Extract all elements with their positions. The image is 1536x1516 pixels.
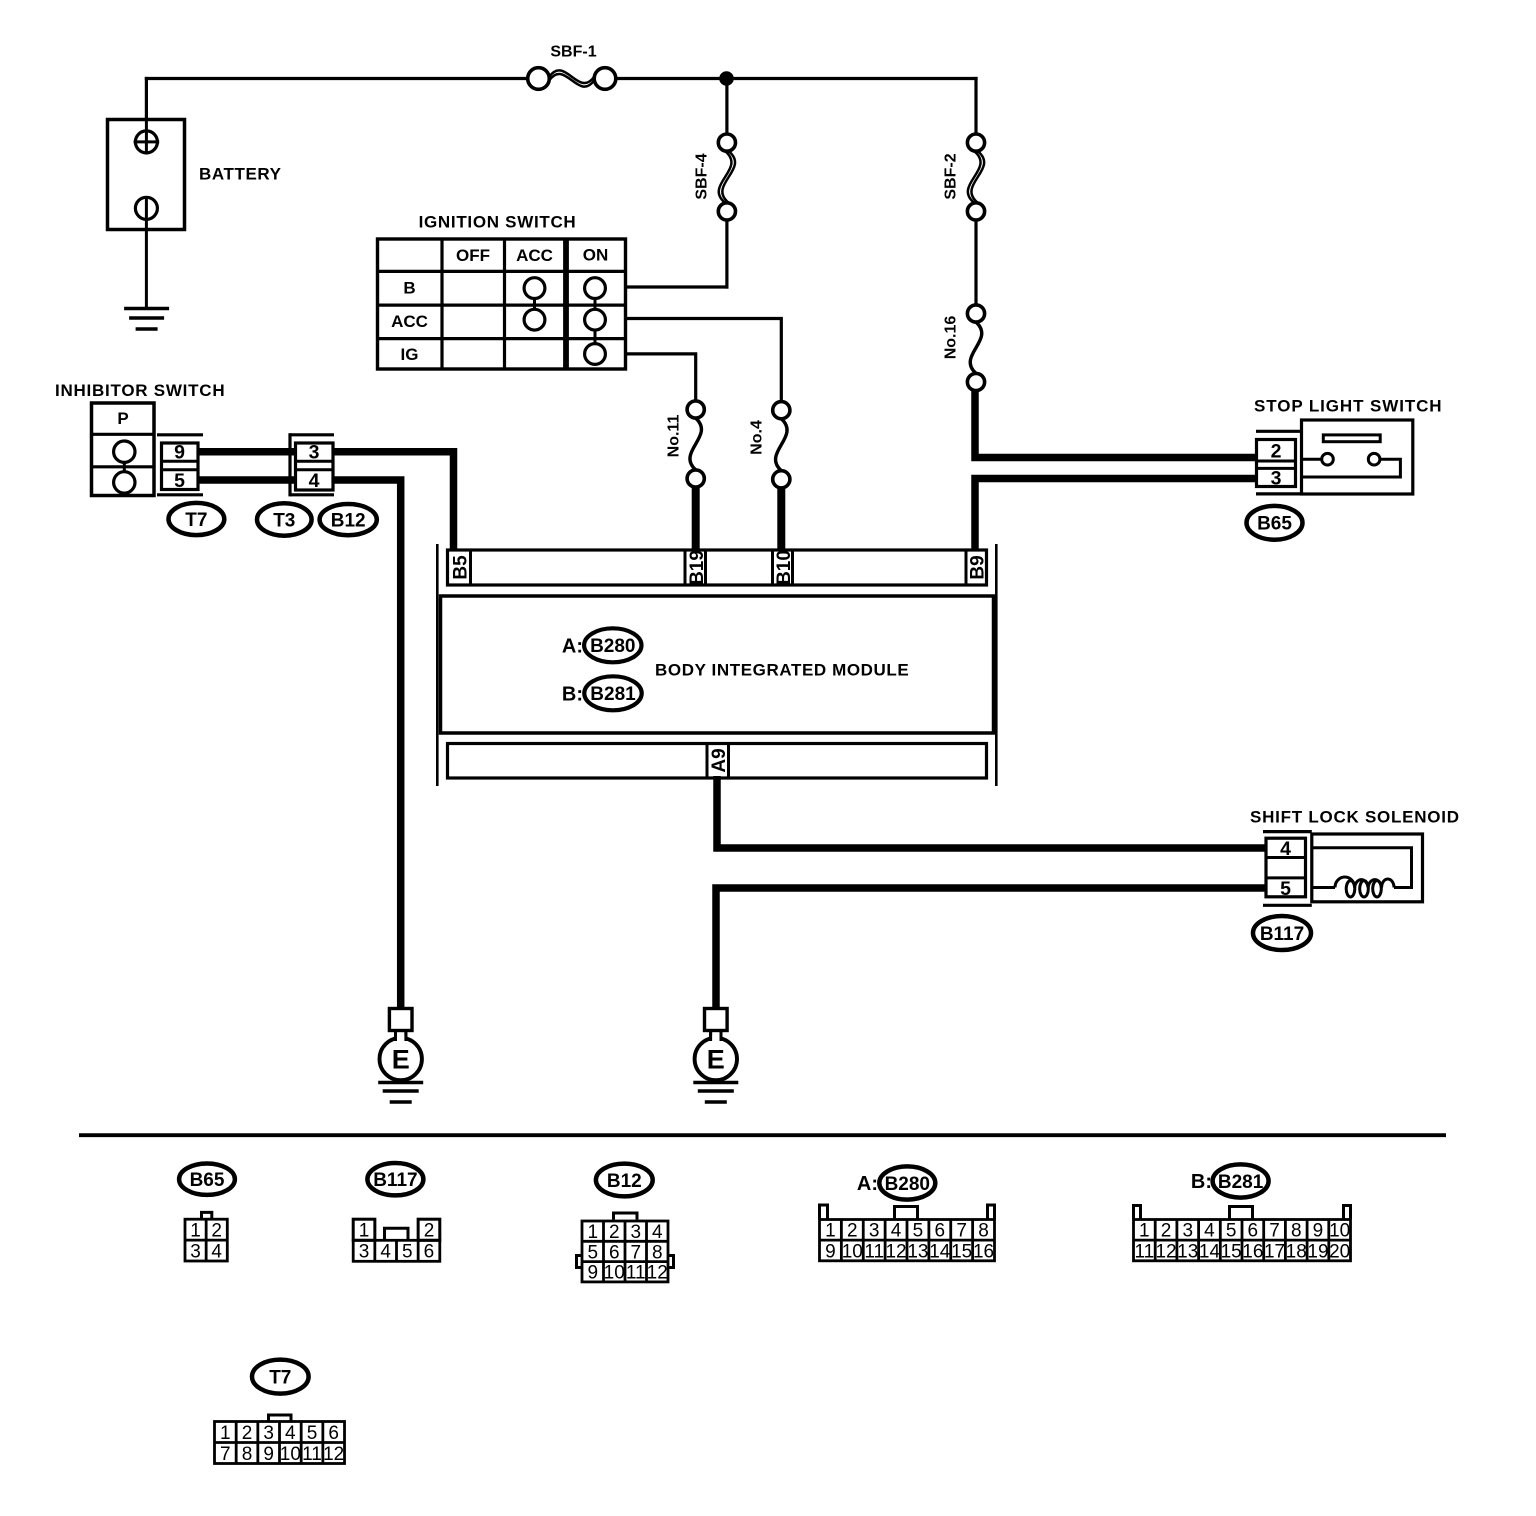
svg-text:B12: B12 <box>331 510 366 531</box>
svg-text:3: 3 <box>1182 1221 1193 1242</box>
svg-text:7: 7 <box>220 1444 231 1465</box>
svg-text:ACC: ACC <box>516 246 553 265</box>
svg-text:3: 3 <box>263 1423 274 1444</box>
svg-text:10: 10 <box>604 1263 625 1284</box>
svg-text:B19: B19 <box>687 550 708 585</box>
svg-text:OFF: OFF <box>456 246 490 265</box>
svg-text:2: 2 <box>847 1221 858 1242</box>
svg-text:8: 8 <box>1291 1221 1302 1242</box>
svg-text:15: 15 <box>1221 1241 1242 1262</box>
svg-text:10: 10 <box>842 1241 863 1262</box>
svg-text:B117: B117 <box>1260 924 1304 945</box>
svg-text:B:: B: <box>1191 1171 1212 1193</box>
svg-text:5: 5 <box>587 1242 598 1263</box>
svg-text:6: 6 <box>328 1423 339 1444</box>
svg-text:2: 2 <box>1161 1221 1172 1242</box>
svg-text:1: 1 <box>1139 1221 1150 1242</box>
svg-text:11: 11 <box>864 1241 884 1262</box>
svg-text:1: 1 <box>825 1221 836 1242</box>
svg-text:17: 17 <box>1264 1241 1285 1262</box>
svg-text:13: 13 <box>907 1241 928 1262</box>
svg-text:14: 14 <box>1199 1241 1221 1262</box>
svg-text:19: 19 <box>1307 1241 1328 1262</box>
svg-text:ON: ON <box>583 246 609 265</box>
svg-text:SBF-4: SBF-4 <box>693 153 710 199</box>
svg-text:18: 18 <box>1286 1241 1307 1262</box>
svg-text:15: 15 <box>951 1241 972 1262</box>
svg-text:4: 4 <box>1204 1221 1215 1242</box>
svg-text:8: 8 <box>652 1242 663 1263</box>
svg-text:6: 6 <box>1248 1221 1259 1242</box>
svg-text:13: 13 <box>1177 1241 1198 1262</box>
svg-text:4: 4 <box>285 1423 296 1444</box>
svg-text:11: 11 <box>626 1263 646 1284</box>
svg-text:SHIFT LOCK SOLENOID: SHIFT LOCK SOLENOID <box>1250 808 1460 827</box>
svg-text:12: 12 <box>647 1263 668 1284</box>
svg-text:3: 3 <box>630 1222 641 1243</box>
svg-text:A9: A9 <box>709 748 730 772</box>
svg-text:E: E <box>707 1045 725 1075</box>
svg-text:12: 12 <box>1155 1241 1176 1262</box>
svg-text:5: 5 <box>1280 878 1291 900</box>
svg-text:P: P <box>117 409 128 428</box>
svg-text:T7: T7 <box>269 1367 291 1388</box>
svg-text:2: 2 <box>609 1222 620 1243</box>
svg-text:2: 2 <box>242 1423 253 1444</box>
svg-text:1: 1 <box>587 1222 598 1243</box>
svg-text:3: 3 <box>190 1241 201 1262</box>
svg-text:B65: B65 <box>190 1170 225 1191</box>
svg-text:7: 7 <box>630 1242 641 1263</box>
svg-text:9: 9 <box>587 1263 598 1284</box>
svg-text:IG: IG <box>401 345 419 364</box>
svg-text:1: 1 <box>359 1221 370 1242</box>
svg-text:6: 6 <box>609 1242 620 1263</box>
svg-text:IGNITION SWITCH: IGNITION SWITCH <box>419 213 577 232</box>
svg-text:T7: T7 <box>185 510 207 531</box>
svg-text:6: 6 <box>424 1242 435 1263</box>
svg-text:4: 4 <box>652 1222 663 1243</box>
svg-text:5: 5 <box>174 470 185 492</box>
svg-text:E: E <box>392 1045 410 1075</box>
svg-text:5: 5 <box>307 1423 318 1444</box>
svg-text:3: 3 <box>309 442 320 464</box>
svg-text:INHIBITOR SWITCH: INHIBITOR SWITCH <box>55 381 225 400</box>
svg-text:BODY INTEGRATED MODULE: BODY INTEGRATED MODULE <box>655 660 909 679</box>
svg-text:2: 2 <box>424 1221 435 1242</box>
svg-text:9: 9 <box>174 442 185 464</box>
svg-text:5: 5 <box>402 1242 413 1263</box>
svg-text:16: 16 <box>1242 1241 1263 1262</box>
svg-text:B280: B280 <box>590 636 635 657</box>
svg-text:4: 4 <box>891 1221 902 1242</box>
svg-text:No.16: No.16 <box>942 316 959 360</box>
svg-text:9: 9 <box>1313 1221 1324 1242</box>
svg-text:B281: B281 <box>590 684 636 705</box>
svg-text:ACC: ACC <box>391 312 428 331</box>
svg-text:16: 16 <box>973 1241 994 1262</box>
svg-text:B280: B280 <box>885 1174 930 1195</box>
svg-text:B9: B9 <box>967 555 988 579</box>
svg-text:6: 6 <box>935 1221 946 1242</box>
svg-text:4: 4 <box>211 1241 222 1262</box>
svg-text:B10: B10 <box>774 550 795 585</box>
svg-text:10: 10 <box>1329 1221 1350 1242</box>
svg-text:2: 2 <box>1271 441 1282 463</box>
svg-text:9: 9 <box>825 1241 836 1262</box>
svg-text:4: 4 <box>309 470 320 492</box>
svg-text:STOP LIGHT SWITCH: STOP LIGHT SWITCH <box>1254 397 1442 416</box>
svg-text:No.4: No.4 <box>748 420 765 455</box>
svg-text:7: 7 <box>1269 1221 1280 1242</box>
svg-text:11: 11 <box>302 1444 322 1465</box>
svg-text:2: 2 <box>211 1221 222 1242</box>
svg-text:B281: B281 <box>1218 1172 1264 1193</box>
svg-text:5: 5 <box>1226 1221 1237 1242</box>
svg-text:12: 12 <box>885 1241 906 1262</box>
svg-text:B65: B65 <box>1257 514 1292 535</box>
svg-text:14: 14 <box>929 1241 951 1262</box>
svg-text:SBF-1: SBF-1 <box>550 43 596 60</box>
svg-text:B:: B: <box>562 684 583 706</box>
svg-text:B117: B117 <box>373 1170 417 1191</box>
svg-text:9: 9 <box>263 1444 274 1465</box>
svg-text:1: 1 <box>220 1423 231 1444</box>
svg-text:A:: A: <box>562 636 583 658</box>
svg-text:A:: A: <box>857 1173 878 1195</box>
svg-text:3: 3 <box>359 1242 370 1263</box>
svg-text:11: 11 <box>1134 1241 1154 1262</box>
svg-text:8: 8 <box>242 1444 253 1465</box>
svg-text:SBF-2: SBF-2 <box>942 153 959 199</box>
svg-text:3: 3 <box>869 1221 880 1242</box>
svg-text:B: B <box>403 279 415 298</box>
svg-text:10: 10 <box>280 1444 301 1465</box>
svg-text:No.11: No.11 <box>665 415 682 458</box>
svg-text:BATTERY: BATTERY <box>199 165 282 184</box>
svg-text:B5: B5 <box>450 555 471 580</box>
svg-text:4: 4 <box>380 1242 391 1263</box>
svg-text:8: 8 <box>978 1221 989 1242</box>
svg-text:1: 1 <box>190 1221 201 1242</box>
svg-text:12: 12 <box>323 1444 344 1465</box>
svg-text:4: 4 <box>1280 838 1291 860</box>
svg-text:7: 7 <box>956 1221 967 1242</box>
svg-text:B12: B12 <box>607 1171 642 1192</box>
svg-text:T3: T3 <box>273 510 295 531</box>
svg-text:20: 20 <box>1329 1241 1350 1262</box>
svg-text:5: 5 <box>913 1221 924 1242</box>
svg-text:3: 3 <box>1271 468 1282 490</box>
